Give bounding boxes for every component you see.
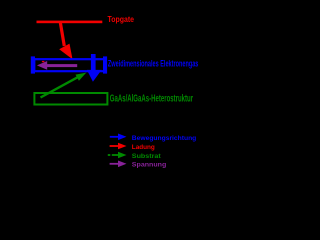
svg-text:Zweidimensionales Elektronenga: Zweidimensionales Elektronengas <box>108 59 198 70</box>
svg-text:Topgate: Topgate <box>108 15 135 24</box>
svg-text:Ladung: Ladung <box>132 144 155 151</box>
svg-text:Spannung: Spannung <box>132 162 167 169</box>
svg-text:Bewegungsrichtung: Bewegungsrichtung <box>132 135 197 142</box>
svg-text:GaAs/AlGaAs-Heterostruktur: GaAs/AlGaAs-Heterostruktur <box>110 93 193 104</box>
svg-text:Substrat: Substrat <box>132 153 162 160</box>
